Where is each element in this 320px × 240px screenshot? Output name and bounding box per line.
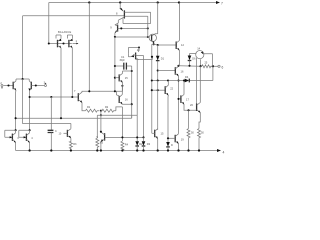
wire Q10 bottom wire right: [136, 57, 153, 60]
node output junction: [212, 65, 214, 67]
node input terminal 2: [1, 85, 3, 87]
wire Q11 base wire: [115, 36, 149, 38]
wire Q14 emitter-left line down to Q20 base: [196, 58, 198, 104]
wire Q6 emitter down: [71, 48, 73, 97]
transistor Q6 balance right: [68, 40, 70, 48]
node V+ arrow: [216, 1, 220, 4]
svg-text:6: 6: [222, 65, 224, 69]
wire emitter wire right to Q12 base: [154, 43, 177, 46]
resistor R3: [69, 138, 72, 150]
wire y123 from left vertical: [23, 79, 71, 129]
wire Q16 collector up: [178, 65, 180, 68]
wire emitter bus y=97: [30, 96, 79, 98]
svg-text:D: D: [171, 143, 173, 147]
resistor R2: [101, 109, 116, 112]
transistor Q16: [174, 67, 176, 75]
transistor Q15 bottom right: [154, 130, 156, 138]
transistor Q2 input right: [30, 82, 32, 90]
wire long vertical from Q11 emitter down: [152, 44, 154, 133]
node junction diode tap: [157, 44, 159, 46]
wire base bus y137.5: [105, 136, 144, 138]
resistor R11: [198, 129, 201, 151]
node junction on top rail: [88, 1, 90, 3]
wire bus riser to output node: [212, 66, 214, 80]
svg-text:7: 7: [221, 2, 223, 6]
wire from top rail down (Q8 branch): [88, 3, 90, 92]
node junction on top rail: [157, 1, 159, 3]
diode D2: [135, 141, 139, 145]
wire bottom rail V-: [16, 150, 218, 152]
transistor Q11 (with circle): [149, 34, 156, 41]
wire jog up joining upper bus: [131, 115, 133, 118]
diode D3: [142, 141, 146, 145]
svg-text:D4: D4: [185, 75, 189, 79]
transistor Q16A gain stage: [116, 91, 119, 96]
wire from V+ down to balance: [48, 3, 50, 44]
resistor R10: [188, 110, 190, 128]
wire Q7 collector right: [82, 90, 116, 93]
transistor Q5 balance left: [57, 40, 59, 48]
diode D4 horizontal: [185, 79, 189, 83]
transistor Q5b bottom mid-right (faces left): [104, 133, 106, 140]
wire Q15 emitter to rail: [157, 139, 159, 151]
svg-text:30pF: 30pF: [120, 60, 126, 62]
wire Q11 collector up to rail: [157, 3, 159, 34]
wire Q7 emitter down to R1: [82, 102, 86, 110]
wire R5 mid vertical: [96, 115, 98, 138]
wire down to Q11 base: [147, 16, 149, 37]
wire mid vertical: [114, 37, 116, 91]
node junction on top rail: [119, 1, 121, 3]
resistor R4: [121, 141, 124, 151]
wire balance base wire: [49, 43, 72, 45]
diode D5b below T6 base: [166, 142, 170, 147]
wire collector bus: [16, 78, 29, 80]
wire link dot to wireA: [100, 111, 102, 116]
wire second rail: [23, 15, 125, 17]
wire upper bus y115 to D2: [97, 114, 137, 116]
wire Q1 emitter down: [15, 91, 17, 130]
wire Q12 emitter down: [178, 51, 180, 66]
node junction: [157, 69, 159, 71]
transistor Q17: [179, 98, 181, 100]
wire Q14 emitter down: [200, 59, 202, 66]
wire corner left: [22, 16, 24, 79]
transistor Q1 input left: [4, 85, 14, 87]
transistor Q7: [77, 93, 79, 101]
wire output line: [179, 65, 215, 68]
transistor Q4 bottom: [29, 129, 31, 131]
svg-text:C: C: [55, 130, 57, 133]
node input terminal 3: [45, 85, 47, 87]
capacitor C2 on left-mid vertical: [48, 130, 54, 132]
capacitor C1: [115, 65, 124, 67]
svg-text:D1: D1: [161, 56, 165, 60]
wire D1 to Q16 base: [158, 70, 176, 72]
transistor Q14 (with circle): [196, 51, 204, 59]
wire emitter right to cap node: [122, 103, 131, 105]
transistor Q12: [175, 42, 177, 50]
node junction on top rail: [178, 1, 180, 3]
diode D1: [157, 45, 159, 81]
transistor Q20: [196, 104, 198, 112]
transistor Q8 top middle: [119, 3, 121, 10]
svg-text:C1: C1: [121, 55, 125, 59]
wire Q17 emitter to Q20 base: [184, 104, 197, 110]
node output terminal: [215, 65, 219, 67]
svg-text:D3: D3: [147, 142, 151, 146]
svg-text:4: 4: [223, 150, 225, 154]
transistor Q10 upper mid (above cap): [135, 53, 137, 60]
wire cap right down: [131, 66, 133, 118]
svg-text:BALANCE: BALANCE: [58, 30, 71, 34]
wire lower bus y118: [16, 117, 132, 119]
wire Q16 emitter down: [178, 76, 180, 134]
wire cap2 vertical: [50, 97, 52, 130]
node Q11 emitter junction: [153, 43, 155, 45]
wire Q9 base wire right: [118, 27, 148, 29]
wire Q14 collector right and down to output: [203, 54, 212, 67]
wire base line right: [124, 15, 147, 17]
wire Q2 emitter down: [29, 91, 31, 130]
transistor Q19: [174, 135, 176, 143]
wire Q20 emitter down to R11: [199, 112, 200, 128]
node balance terminal stub: [73, 43, 78, 45]
resistor R9 zigzag: [202, 65, 211, 68]
transistor Q22 mid-right: [152, 89, 165, 91]
wire Q14 base left with diode D6: [190, 54, 196, 56]
resistor R5: [96, 138, 99, 151]
node junctions on bottom rail: [28, 149, 30, 151]
wire horizontal bus y=80.5: [152, 80, 213, 82]
wire Q22 emitter down to T6 base node: [167, 95, 169, 142]
resistor R1: [86, 109, 100, 112]
wire top rail V+: [49, 2, 217, 4]
transistor Q9 lower: [115, 17, 125, 25]
wire T5 collector/emitter line: [157, 81, 159, 130]
wire step to R4: [116, 107, 123, 141]
transistor Q3 bottom left: [15, 129, 17, 131]
transistor Q10b bottom middle: [66, 130, 68, 137]
transistor Q15 (QE): [114, 77, 116, 79]
wire collector loop right upper: [123, 12, 151, 23]
wire Q5 emitter down: [60, 48, 62, 119]
